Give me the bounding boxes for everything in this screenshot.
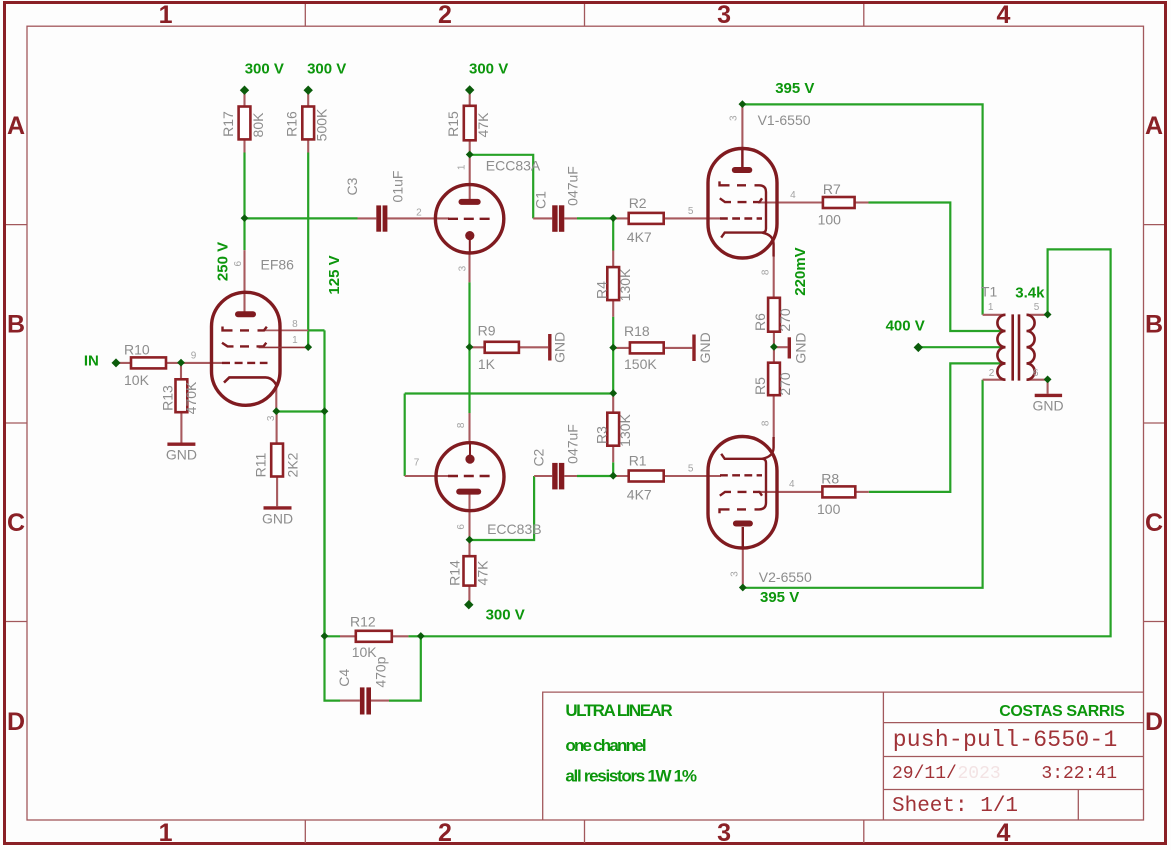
svg-text:047uF: 047uF xyxy=(565,424,581,464)
svg-text:R8: R8 xyxy=(821,471,839,487)
junction R3/C2/R1 xyxy=(609,472,617,480)
label R5 270 xyxy=(752,372,793,396)
svg-text:1: 1 xyxy=(457,164,468,170)
junction cathode net corner xyxy=(321,407,329,415)
wire C4 loop left xyxy=(325,636,341,700)
pin R15 stubs xyxy=(469,92,471,155)
svg-text:300 V: 300 V xyxy=(469,61,508,78)
label C2 047uF xyxy=(531,424,581,466)
pin R5 top stub xyxy=(773,347,775,363)
label R10 10K xyxy=(124,342,150,389)
wire R4 top xyxy=(612,218,614,250)
svg-text:3: 3 xyxy=(730,571,741,577)
pin R6 bottom stub xyxy=(773,332,775,348)
column ticks bottom xyxy=(305,820,864,843)
svg-text:ECC83B: ECC83B xyxy=(487,521,541,537)
wire ECC83A cathode down to ECC83B xyxy=(468,282,470,413)
pin R2 stubs + V1 pin5 xyxy=(613,217,721,219)
label R4 130K xyxy=(594,268,633,301)
svg-text:R6: R6 xyxy=(752,313,768,331)
svg-text:395 V: 395 V xyxy=(760,589,799,606)
svg-text:push-pull-6550-1: push-pull-6550-1 xyxy=(893,727,1118,753)
svg-text:R15: R15 xyxy=(445,111,461,137)
pin V1 pin4 to R7 xyxy=(758,201,823,203)
svg-text:470K: 470K xyxy=(183,381,199,414)
label R2 4K7 xyxy=(627,195,652,245)
svg-text:400 V: 400 V xyxy=(886,318,925,335)
svg-text:R5: R5 xyxy=(752,377,768,395)
pin ECC83B grid pin7 xyxy=(405,475,449,477)
T1 secondary winding xyxy=(1027,315,1035,380)
V2 beam plates g3 and cathode xyxy=(720,454,767,514)
V2 control grid g1 xyxy=(720,474,762,476)
capacitor C3 01uF xyxy=(376,205,387,231)
svg-text:R16: R16 xyxy=(284,111,300,137)
label R18 150K xyxy=(624,323,657,372)
row ticks left xyxy=(6,225,27,622)
wire ECC83B anode loop to C2 xyxy=(470,476,535,540)
junction V1 anode xyxy=(739,100,747,108)
EF86 control grid g1 xyxy=(222,362,268,364)
svg-text:8: 8 xyxy=(456,422,467,428)
svg-text:D: D xyxy=(7,708,25,736)
label R15 47K xyxy=(445,111,491,138)
svg-text:5: 5 xyxy=(1034,302,1040,313)
svg-text:4: 4 xyxy=(789,479,795,490)
svg-text:R4: R4 xyxy=(594,281,610,299)
svg-text:R14: R14 xyxy=(447,560,463,586)
pin R18 stubs to GND xyxy=(613,347,692,349)
V2 anode plate xyxy=(736,521,750,527)
svg-text:4K7: 4K7 xyxy=(627,487,652,503)
svg-text:8: 8 xyxy=(292,319,298,330)
svg-text:C1: C1 xyxy=(533,191,549,209)
resistor R17 80K xyxy=(239,107,251,140)
svg-text:C3: C3 xyxy=(344,177,360,195)
svg-text:D: D xyxy=(1145,708,1163,736)
resistor R15 47K xyxy=(464,106,476,141)
ground symbol T1 xyxy=(1035,394,1062,397)
svg-text:047uF: 047uF xyxy=(565,166,581,206)
pin R14 stubs xyxy=(468,540,470,602)
capacitor C4 470p xyxy=(360,687,371,714)
pin V2 pin4 to R8 xyxy=(758,491,822,493)
svg-text:3: 3 xyxy=(729,115,740,121)
label R9 1K xyxy=(478,323,496,372)
pin EF86 anode pin6 xyxy=(243,250,245,313)
svg-text:270: 270 xyxy=(777,308,793,332)
wire R12 right stub xyxy=(408,635,420,637)
junction C1/R2/R4 xyxy=(609,214,617,222)
svg-text:3: 3 xyxy=(717,819,731,847)
node supply 400V xyxy=(914,343,923,352)
svg-text:5: 5 xyxy=(688,464,694,475)
pin V1 cathode pin8 to R6 xyxy=(773,256,775,298)
svg-text:GND: GND xyxy=(166,447,197,463)
svg-text:47K: 47K xyxy=(475,112,491,138)
pin EF86 cathode pin3 xyxy=(275,386,277,412)
svg-text:R9: R9 xyxy=(478,323,496,339)
svg-text:2023: 2023 xyxy=(958,764,1001,784)
resistor R18 150K xyxy=(630,342,664,353)
EF86 suppressor grid g3 xyxy=(223,327,267,331)
wire R15 junction to C1 corner xyxy=(470,155,534,219)
pin C4 stubs xyxy=(340,700,389,702)
V1 beam plates g3 and cathode xyxy=(720,181,767,237)
svg-text:B: B xyxy=(1145,311,1163,339)
ECC83B envelope xyxy=(436,443,504,511)
pin R3 stubs xyxy=(612,396,614,462)
wire R3 bottom to R1 node xyxy=(612,462,614,477)
label R16 500K xyxy=(284,108,330,141)
label C3 01uF xyxy=(344,171,406,203)
pin T1 pin5 xyxy=(1027,314,1048,316)
EF86 envelope xyxy=(212,292,281,405)
svg-text:C4: C4 xyxy=(336,669,352,687)
node supply 300V R16 xyxy=(304,86,313,95)
tube ECC83B triode (flipped) xyxy=(436,443,504,511)
junction R15/ECC83A anode xyxy=(466,151,474,159)
junction R12 right xyxy=(417,632,425,640)
ECC83A envelope xyxy=(435,185,503,253)
pin EF86 grid pin9 / R10 / R13 row xyxy=(116,363,222,379)
pin ECC83B cathode pin8 xyxy=(468,413,470,441)
V2 envelope xyxy=(708,437,777,549)
pin R7 right stub xyxy=(855,201,869,203)
resistor R5 270 xyxy=(768,363,780,396)
pin R13 to GND xyxy=(180,412,182,442)
junction EF86 cathode xyxy=(272,407,280,415)
wire R17 junction vertical xyxy=(243,153,245,219)
label R8 100 xyxy=(817,471,841,518)
svg-text:R12: R12 xyxy=(350,614,376,630)
svg-text:GND: GND xyxy=(793,332,809,363)
resistor R11 2K2 xyxy=(271,444,283,477)
svg-text:4: 4 xyxy=(996,819,1010,847)
V2 cathode pin lead xyxy=(762,437,774,459)
transformer T1 xyxy=(997,314,1034,380)
label R1 4K7 xyxy=(627,453,652,503)
wire R17 junction to C3 xyxy=(245,217,358,219)
svg-text:2K2: 2K2 xyxy=(284,452,300,477)
pin C3 left/right xyxy=(358,217,450,219)
svg-text:A: A xyxy=(7,112,25,140)
wire divider horizontal to ECC83B grid xyxy=(405,392,614,394)
T1 core bars xyxy=(1013,314,1019,380)
junction ECC83B anode xyxy=(466,536,474,544)
svg-text:4: 4 xyxy=(790,190,796,201)
row letters xyxy=(7,112,1163,736)
wire junction to EF86 anode xyxy=(243,218,245,250)
pin R17 top/bottom stubs xyxy=(243,93,245,153)
EF86 screen grid g2 xyxy=(222,343,266,347)
ECC83A cathode xyxy=(465,231,474,240)
wire C2 right to R1 node xyxy=(577,475,613,477)
svg-text:C2: C2 xyxy=(531,448,547,466)
svg-text:47K: 47K xyxy=(474,560,490,586)
svg-text:2: 2 xyxy=(989,368,995,379)
label C4 470p xyxy=(336,656,389,687)
capacitor C2 047uF xyxy=(552,463,564,490)
svg-text:3: 3 xyxy=(266,415,277,421)
svg-text:6: 6 xyxy=(233,260,244,266)
pin C1 left/right xyxy=(533,217,577,219)
svg-text:EF86: EF86 xyxy=(261,257,295,273)
pin R12 stubs xyxy=(340,635,408,637)
pin T1 pin6 xyxy=(1027,379,1048,381)
resistor R10 10K xyxy=(131,357,166,368)
junction R9 tap xyxy=(466,343,474,351)
EF86 cathode xyxy=(224,377,276,384)
svg-text:2: 2 xyxy=(438,1,452,29)
svg-text:01uF: 01uF xyxy=(390,171,406,203)
ECC83B anode plate xyxy=(459,489,478,495)
svg-text:7: 7 xyxy=(414,458,420,469)
resistor R8 100 xyxy=(822,486,855,497)
EF86 anode plate xyxy=(238,311,253,317)
svg-text:470p: 470p xyxy=(373,656,389,687)
pin ECC83B anode pin6 xyxy=(468,495,470,541)
wire R18 node to divider node xyxy=(612,348,614,396)
resistor R14 47K xyxy=(464,556,476,585)
svg-text:GND: GND xyxy=(262,510,293,526)
svg-text:80K: 80K xyxy=(250,112,266,138)
ECC83B grid xyxy=(448,475,491,477)
svg-text:2: 2 xyxy=(438,819,452,847)
svg-text:220mV: 220mV xyxy=(792,247,809,295)
label R13 470K xyxy=(160,381,200,414)
wire R7 to T1 upper tap xyxy=(869,203,1005,332)
svg-text:COSTAS SARRIS: COSTAS SARRIS xyxy=(999,703,1125,720)
T1 primary winding xyxy=(997,315,1005,380)
ECC83A anode plate xyxy=(462,199,478,205)
svg-text:R2: R2 xyxy=(629,195,647,211)
junction T1 pin6 xyxy=(1044,376,1052,384)
pin T1 pin1 xyxy=(983,314,1006,316)
ground symbol R11 xyxy=(264,506,292,509)
label R12 10K xyxy=(350,614,377,661)
svg-text:GND: GND xyxy=(1032,398,1063,414)
row ticks right xyxy=(1144,225,1165,622)
resistor R4 130K xyxy=(607,267,619,300)
svg-text:C: C xyxy=(1145,509,1163,537)
svg-text:R3: R3 xyxy=(594,426,610,444)
svg-text:300 V: 300 V xyxy=(486,606,525,623)
svg-text:130K: 130K xyxy=(617,413,633,446)
tube V1 6550 pentode xyxy=(708,149,777,259)
wire C1 right to R2 junction xyxy=(577,217,613,219)
svg-text:5: 5 xyxy=(688,206,694,217)
svg-text:ECC83A: ECC83A xyxy=(486,158,541,174)
svg-text:B: B xyxy=(7,311,25,339)
pin numbers EF86 xyxy=(191,260,298,421)
wire R4 bottom xyxy=(612,317,614,348)
capacitor C1 047uF xyxy=(552,205,564,232)
junction EF86 pin1 xyxy=(304,343,312,351)
svg-text:one channel: one channel xyxy=(565,736,645,755)
ground symbol R13 xyxy=(167,443,195,446)
column numbers xyxy=(159,1,1011,847)
svg-text:29/11/: 29/11/ xyxy=(892,764,957,784)
V1 cathode pin lead xyxy=(762,233,774,257)
svg-text:250 V: 250 V xyxy=(215,242,232,281)
svg-text:4: 4 xyxy=(996,1,1010,29)
svg-text:130K: 130K xyxy=(617,268,633,301)
resistor R13 470K xyxy=(176,379,188,412)
svg-text:R17: R17 xyxy=(220,111,236,137)
svg-text:300 V: 300 V xyxy=(307,61,346,78)
wire V2 anode 395V run xyxy=(743,380,983,588)
title block xyxy=(543,692,1144,820)
wire cathode row horizontal xyxy=(276,410,324,412)
wire R8 to T1 lower tap xyxy=(869,363,1004,492)
junction R12 left xyxy=(321,632,329,640)
svg-text:3:22:41: 3:22:41 xyxy=(1041,764,1117,784)
svg-text:3: 3 xyxy=(457,265,468,271)
resistor R2 4K7 xyxy=(629,213,664,224)
svg-text:8: 8 xyxy=(761,420,772,426)
pin T1 pin2 xyxy=(983,379,1006,381)
junction R4/R18 xyxy=(609,344,617,352)
pin T1 pin6 GND stem xyxy=(1047,380,1049,394)
svg-text:GND: GND xyxy=(552,332,568,363)
pin V2 anode pin3 xyxy=(742,527,744,588)
svg-text:100: 100 xyxy=(818,212,842,228)
junction divider node xyxy=(609,389,617,397)
wire R12 left net xyxy=(325,412,341,637)
resistor R16 500K xyxy=(302,107,314,140)
wire T1 pin5 feedback run xyxy=(421,249,1111,636)
svg-text:3.4k: 3.4k xyxy=(1015,285,1045,302)
svg-text:R7: R7 xyxy=(823,181,841,197)
svg-text:4K7: 4K7 xyxy=(627,229,652,245)
pin numbers T1 xyxy=(988,302,1040,379)
pin R1 stubs + V2 pin5 xyxy=(613,475,721,477)
pin R16 stubs xyxy=(307,93,309,153)
column ticks top xyxy=(305,4,864,26)
svg-text:2: 2 xyxy=(416,207,422,218)
junction R17/C3/EF86 xyxy=(241,214,249,222)
svg-text:IN: IN xyxy=(84,353,99,370)
pin R4 stubs xyxy=(612,251,614,317)
ECC83B cathode xyxy=(465,455,474,464)
pin C2 left/right xyxy=(534,475,577,477)
svg-text:9: 9 xyxy=(191,350,197,361)
pin numbers V1 xyxy=(688,115,796,275)
pin numbers ECC83A xyxy=(416,164,468,271)
wire corner down to cathode row xyxy=(323,330,325,411)
label C1 047uF xyxy=(533,166,581,209)
svg-text:ULTRA LINEAR: ULTRA LINEAR xyxy=(565,701,672,720)
svg-text:100: 100 xyxy=(817,501,841,517)
V2 screen grid g2 xyxy=(720,492,762,496)
pin R11 stubs xyxy=(276,412,279,507)
pin ECC83A anode pin1 xyxy=(469,155,471,200)
V1 anode plate xyxy=(735,167,750,173)
wire down to R12 xyxy=(323,412,325,637)
resistor R9 1K xyxy=(485,342,519,353)
ground symbol R6R5 xyxy=(788,337,791,358)
svg-text:V1-6550: V1-6550 xyxy=(758,112,811,128)
resistor R1 4K7 xyxy=(629,471,664,482)
junction R6/R5/GND xyxy=(770,343,778,351)
node supply 300V R14 xyxy=(464,600,473,609)
label R3 130K xyxy=(594,413,633,446)
wire ECC83B grid drop xyxy=(404,394,406,477)
tube EF86 pentode xyxy=(212,292,309,405)
pin R5 bottom to V2 pin8 xyxy=(773,395,775,437)
svg-text:A: A xyxy=(1145,112,1163,140)
wire R16 down to EF86 pin1 xyxy=(307,153,309,348)
tube ECC83A triode xyxy=(435,185,503,253)
label R7 100 xyxy=(818,181,842,228)
V1 envelope xyxy=(708,149,777,259)
resistor R7 100 xyxy=(823,197,855,208)
svg-text:150K: 150K xyxy=(624,356,657,372)
ground symbol R9 xyxy=(548,334,551,361)
ground symbol R18 xyxy=(692,335,695,362)
svg-text:500K: 500K xyxy=(314,108,330,141)
svg-text:GND: GND xyxy=(697,332,713,363)
svg-text:R1: R1 xyxy=(629,453,647,469)
V1 control grid g1 xyxy=(720,217,762,219)
svg-text:270: 270 xyxy=(777,372,793,396)
wire C4 loop right xyxy=(389,636,421,700)
pin ECC83A cathode pin3 xyxy=(468,252,470,282)
pin V1 anode pin3 xyxy=(741,107,743,168)
tube V2 6550 pentode (flipped) xyxy=(708,437,777,549)
svg-text:all resistors 1W 1%: all resistors 1W 1% xyxy=(565,767,696,786)
svg-text:T1: T1 xyxy=(981,284,998,300)
ECC83A grid xyxy=(448,218,491,220)
resistor R3 130K xyxy=(607,413,619,446)
svg-text:Sheet: 1/1: Sheet: 1/1 xyxy=(892,795,1018,818)
resistor R6 270 xyxy=(768,298,780,332)
pin EF86 internal shield pin1 xyxy=(259,346,309,348)
label R6 270 xyxy=(752,308,793,332)
label R14 47K xyxy=(447,560,491,586)
junction V2 anode xyxy=(739,584,747,592)
pin numbers ECC83B xyxy=(414,422,467,530)
label R11 2K2 xyxy=(253,452,301,477)
pin numbers V2 xyxy=(688,420,795,577)
svg-text:1: 1 xyxy=(292,335,298,346)
svg-text:1: 1 xyxy=(159,819,173,847)
junction R10/R13 xyxy=(177,359,185,367)
svg-text:1K: 1K xyxy=(478,356,496,372)
svg-text:8: 8 xyxy=(761,269,772,275)
junction T1 pin5 xyxy=(1044,311,1052,319)
node IN port xyxy=(112,358,121,367)
svg-text:6: 6 xyxy=(1033,368,1039,379)
pin R6R5 GND stub xyxy=(774,346,788,348)
wire V1 anode 395V run xyxy=(742,104,982,314)
svg-text:125 V: 125 V xyxy=(326,255,343,294)
svg-text:R11: R11 xyxy=(253,452,269,477)
svg-text:1: 1 xyxy=(159,1,173,29)
svg-text:1: 1 xyxy=(988,302,994,313)
node supply 300V R17 xyxy=(240,86,249,95)
pin R9 stubs xyxy=(470,346,549,348)
svg-text:R10: R10 xyxy=(124,342,150,358)
svg-text:395 V: 395 V xyxy=(775,80,814,97)
wire 400V to T1 middle tap xyxy=(918,346,1004,348)
pin EF86 pin8 line xyxy=(264,329,308,331)
node supply 300V R15 xyxy=(465,85,474,94)
pin R8 right stub xyxy=(855,491,869,493)
svg-text:6: 6 xyxy=(456,524,467,530)
resistor R12 10K xyxy=(356,631,392,642)
